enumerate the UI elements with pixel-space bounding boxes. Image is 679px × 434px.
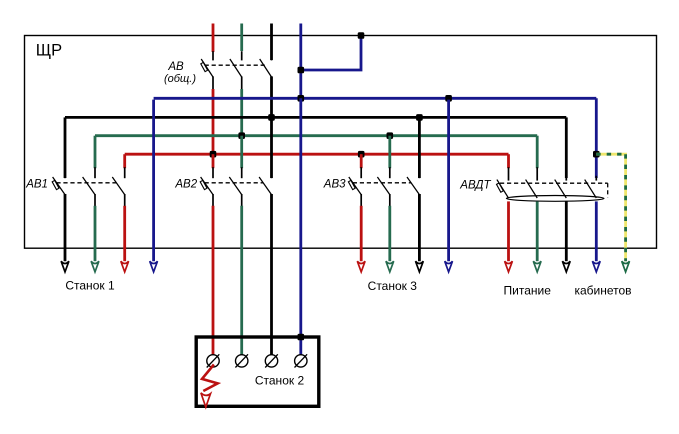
arrow Станок3 N xyxy=(445,261,453,272)
panel ЩР enclosure xyxy=(25,36,657,249)
wire L3 bus (black horizontal) xyxy=(65,116,566,119)
arrow кабинетов PE xyxy=(622,261,630,272)
junction L3 bus / AB3 branch xyxy=(416,114,423,121)
arrow Станок3 L3 xyxy=(416,261,424,272)
junction L3 bus / AB(общ.) xyxy=(268,114,275,121)
wire L3 drop to AB2 pole3 xyxy=(270,117,273,178)
machine Станок2 enclosure xyxy=(196,337,319,406)
wire L1 drop to AB2 pole1 xyxy=(212,154,215,168)
svg-text:АВ3: АВ3 xyxy=(323,179,346,191)
arrow Станок3 L2 xyxy=(386,261,394,272)
svg-text:АВ: АВ xyxy=(167,61,184,73)
junction N link / N feed xyxy=(298,67,305,74)
wire АВДТ output red xyxy=(507,201,510,261)
wire L1 drop to AB1 pole3 xyxy=(123,154,126,168)
wire L2 drop to AB2 pole2 xyxy=(240,136,243,169)
svg-text:Станок 2: Станок 2 xyxy=(255,373,305,387)
junction N bus / Станок3 branch xyxy=(445,95,452,102)
svg-text:кабинетов: кабинетов xyxy=(574,284,631,298)
circuit breaker AB3 3-pole xyxy=(348,167,419,206)
arrow Станок3 L1 xyxy=(357,261,365,272)
wire L1 AB(общ.) output to red bus xyxy=(212,89,215,154)
short-circuit flash (red lightning at Станок2) xyxy=(201,365,218,408)
wire AB1 output green to Станок1 xyxy=(94,206,97,261)
junction on top border xyxy=(358,32,365,39)
wire АВДТ output green xyxy=(536,201,539,261)
wire N feed (blue, top entry) xyxy=(299,24,302,100)
svg-text:АВ1: АВ1 xyxy=(25,179,48,191)
wire L2 drop to AB1 pole2 xyxy=(94,136,97,169)
wire L3 AB(общ.) output to black bus xyxy=(270,76,273,117)
wire AB3 output black to Станок3 xyxy=(418,194,421,261)
wire N drop to АВДТ pole4 xyxy=(595,98,598,178)
arrow кабинетов N xyxy=(592,261,600,272)
svg-text:АВДТ: АВДТ xyxy=(459,179,491,191)
svg-text:Станок 1: Станок 1 xyxy=(65,279,115,293)
wire N link to enclosure top xyxy=(301,36,361,71)
wire L3 drop to AB3 pole3 xyxy=(418,117,421,178)
svg-text:(общ.): (общ.) xyxy=(164,73,196,85)
wire L3 drop to АВДТ pole3 xyxy=(565,117,568,178)
wire L2 bus (green horizontal) xyxy=(95,134,537,137)
wire N branch to Станок3 (blue) xyxy=(447,100,450,262)
wire L2 drop to АВДТ pole2 xyxy=(536,136,539,169)
wire L2 feed (green, top entry) xyxy=(240,24,243,52)
svg-text:Станок 3: Станок 3 xyxy=(368,279,418,293)
circuit breaker AB2 3-pole xyxy=(200,167,271,206)
arrow Питание L3 xyxy=(562,261,570,272)
arrow Питание L1 xyxy=(505,261,513,272)
wire L1 drop to АВДТ pole1 xyxy=(507,154,510,168)
wire AB2 output red to Станок2 xyxy=(212,206,215,355)
wire L2 drop to AB3 pole2 xyxy=(388,136,391,169)
junction L1 bus / AB3 branch xyxy=(358,151,365,158)
svg-text:АВ2: АВ2 xyxy=(174,179,197,191)
wire AB1 output black to Станок1 xyxy=(64,194,67,261)
wire AB2 output black to Станок2 xyxy=(270,194,273,355)
wire N branch to Станок1 (blue) xyxy=(152,100,155,262)
wire L1 feed (red, top entry) xyxy=(212,24,215,53)
wire N to Станок2 (blue) xyxy=(299,98,302,354)
junction L2 bus / AB(общ.) xyxy=(238,132,245,139)
arrow Станок1 N xyxy=(150,261,158,272)
wire L1 bus (red horizontal) xyxy=(125,153,509,156)
svg-text:ЩР: ЩР xyxy=(36,42,62,60)
wire АВДТ output black xyxy=(565,201,568,261)
wire AB3 output red to Станок3 xyxy=(360,206,363,261)
residual-current breaker АВДТ 4-pole with differential transformer xyxy=(497,167,608,201)
wire L3 feed (black, top entry) xyxy=(270,24,273,61)
wire AB3 output green to Станок3 xyxy=(388,206,391,261)
arrow Питание L2 xyxy=(533,261,541,272)
wire AB2 output green to Станок2 xyxy=(240,206,243,355)
arrow Станок1 L2 xyxy=(91,261,99,272)
junction PE tap on N drop xyxy=(593,151,600,158)
junction N bus / N feed xyxy=(298,95,305,102)
junction L1 bus / AB(общ.) xyxy=(210,151,217,158)
arrow Станок1 L1 xyxy=(121,261,129,272)
junction N wire at Станок2 border xyxy=(298,334,305,341)
wire N bus (blue horizontal) xyxy=(154,97,597,100)
terminals Станок2 (4x circle with slash) xyxy=(207,354,307,367)
wire PE (yellow-green dashed) xyxy=(596,154,625,261)
wire L3 drop to AB1 pole1 xyxy=(64,117,67,178)
label АВ (общ.) xyxy=(164,61,196,85)
wire L2 AB(общ.) output to green bus xyxy=(240,89,243,136)
wire L1 drop to AB3 pole1 xyxy=(360,154,363,168)
wire AB1 output red to Станок1 xyxy=(123,206,126,261)
svg-text:Питание: Питание xyxy=(504,284,552,298)
arrow Станок1 L3 xyxy=(61,261,69,272)
junction L2 bus / AB3 branch xyxy=(387,132,394,139)
wire АВДТ output blue xyxy=(595,201,598,261)
circuit breaker AB (общ.) 3-pole xyxy=(201,51,272,89)
circuit breaker AB1 3-pole xyxy=(52,167,125,206)
